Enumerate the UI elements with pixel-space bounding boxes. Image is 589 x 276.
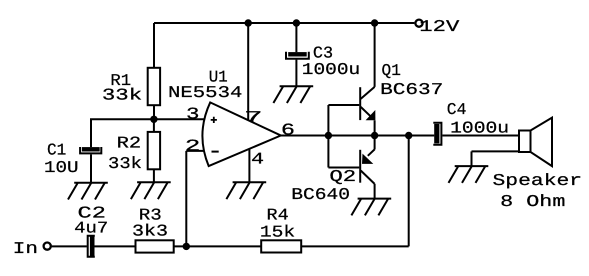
wire C3 top (295, 23, 297, 52)
transistor Q1 BC637 (360, 87, 375, 120)
svg-text:BC637: BC637 (380, 80, 443, 99)
input terminal In (44, 243, 51, 250)
svg-text:BC640: BC640 (291, 185, 350, 204)
wire inverting input (186, 150, 205, 152)
wire pin4 to ground (248, 149, 250, 183)
svg-text:3: 3 (186, 104, 200, 123)
wire pin7 to rail (247, 23, 249, 120)
capacitor C1 (80, 147, 101, 153)
wire Q2 base (328, 167, 359, 169)
svg-text:R2: R2 (117, 134, 142, 153)
wire C1 to ground (90, 154, 92, 182)
wire Q2 emitter up (374, 136, 376, 150)
junction rail-pin7 (245, 19, 252, 26)
svg-text:33k: 33k (108, 154, 142, 173)
wire In to C2 (52, 245, 87, 247)
wire feedback riser (408, 136, 410, 247)
junction output-feedback (405, 132, 412, 139)
ground C1 (68, 183, 108, 200)
svg-text:Speaker: Speaker (493, 171, 583, 190)
resistor R2 (148, 132, 160, 169)
resistor R1 (148, 68, 160, 105)
ground speaker (449, 166, 489, 183)
svg-text:15k: 15k (260, 222, 295, 241)
svg-text:In: In (13, 239, 38, 258)
wire noninverting input node (90, 118, 205, 120)
ground pin4 (226, 182, 266, 199)
wire opamp output row (281, 135, 435, 137)
wire R2 bottom (153, 169, 155, 182)
terminal 12V (415, 20, 422, 27)
junction rail-Q1 (371, 19, 378, 26)
wire Q1 base (328, 104, 359, 106)
svg-text:4: 4 (251, 150, 264, 169)
svg-text:4u7: 4u7 (74, 219, 108, 238)
wire R2 top (153, 119, 155, 132)
svg-text:Q1: Q1 (382, 61, 401, 80)
wire base column (327, 105, 329, 168)
speaker (519, 118, 552, 167)
wire speaker return (472, 150, 520, 152)
wire R4 to feedback riser (301, 245, 409, 247)
junction emitters (371, 132, 378, 139)
wire R1 bottom (153, 105, 155, 119)
ground R2 (131, 182, 171, 199)
junction output-bases (325, 132, 332, 139)
svg-text:7: 7 (244, 108, 263, 127)
ground C3 (273, 86, 313, 103)
svg-text:Q2: Q2 (329, 167, 356, 186)
wire pin2 feedback drop (185, 151, 187, 247)
capacitor C2 (88, 236, 95, 257)
wire Q1 emitter down (374, 120, 376, 135)
wire C2 to R3 (95, 245, 136, 247)
svg-text:1000u: 1000u (302, 60, 360, 79)
resistor R3 (136, 240, 174, 252)
svg-text:C1: C1 (47, 140, 66, 159)
wire R3 to R4 (174, 245, 262, 247)
wire Q2 collector down (374, 184, 376, 199)
capacitor C4 (433, 123, 441, 145)
svg-text:NE5534: NE5534 (168, 83, 242, 102)
junction R1-R2-pin3 (150, 116, 157, 123)
wire R1 top (153, 23, 155, 68)
svg-text:8 Ohm: 8 Ohm (500, 192, 565, 211)
svg-text:10U: 10U (44, 158, 79, 177)
ground Q2 (351, 199, 391, 216)
wire speaker return drop (471, 151, 473, 166)
wire C3 to ground (295, 60, 297, 87)
svg-text:33k: 33k (102, 86, 142, 105)
svg-text:3k3: 3k3 (132, 222, 168, 241)
resistor R4 (261, 240, 301, 252)
wire top +12V rail (154, 22, 414, 24)
wire C4 to speaker (442, 135, 519, 137)
wire C1 top (90, 119, 92, 147)
junction feedback-R3-R4 (183, 243, 190, 250)
transistor Q2 BC640 (360, 149, 374, 184)
wire Q1 collector to rail (374, 23, 376, 87)
op-amp U1 NE5534 (202, 102, 280, 166)
svg-text:12V: 12V (419, 17, 459, 36)
capacitor C3 (286, 52, 309, 59)
junction rail-C3 (293, 19, 300, 26)
svg-text:C4: C4 (447, 100, 467, 119)
